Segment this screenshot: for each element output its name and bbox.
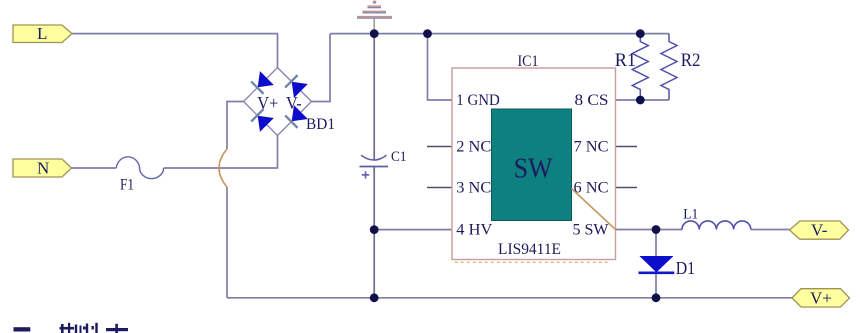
svg-text:5 SW: 5 SW <box>573 221 609 238</box>
svg-text:2 NC: 2 NC <box>456 138 491 155</box>
svg-text:V+: V+ <box>257 93 278 113</box>
svg-text:3 NC: 3 NC <box>456 179 491 196</box>
svg-text:V-: V- <box>811 221 828 240</box>
svg-text:IC1: IC1 <box>518 53 539 70</box>
svg-text:C1: C1 <box>391 149 407 165</box>
svg-text:R2: R2 <box>681 50 701 71</box>
svg-text:L1: L1 <box>683 206 698 222</box>
svg-text:BD1: BD1 <box>306 116 335 133</box>
svg-text:D1: D1 <box>676 258 695 278</box>
svg-text:8 CS: 8 CS <box>575 92 609 109</box>
svg-text:R1: R1 <box>615 50 636 71</box>
svg-text:F1: F1 <box>120 177 134 194</box>
svg-text:7 NC: 7 NC <box>574 138 609 155</box>
svg-text:4 HV: 4 HV <box>456 221 493 238</box>
svg-text:L: L <box>37 24 47 43</box>
svg-text:1 GND: 1 GND <box>456 92 500 109</box>
svg-text:SW: SW <box>514 154 554 185</box>
svg-text:LIS9411E: LIS9411E <box>498 241 561 258</box>
svg-text:6 NC: 6 NC <box>574 179 609 196</box>
svg-text:V-: V- <box>286 93 302 113</box>
svg-text:V+: V+ <box>810 289 832 308</box>
svg-text:N: N <box>37 159 49 178</box>
